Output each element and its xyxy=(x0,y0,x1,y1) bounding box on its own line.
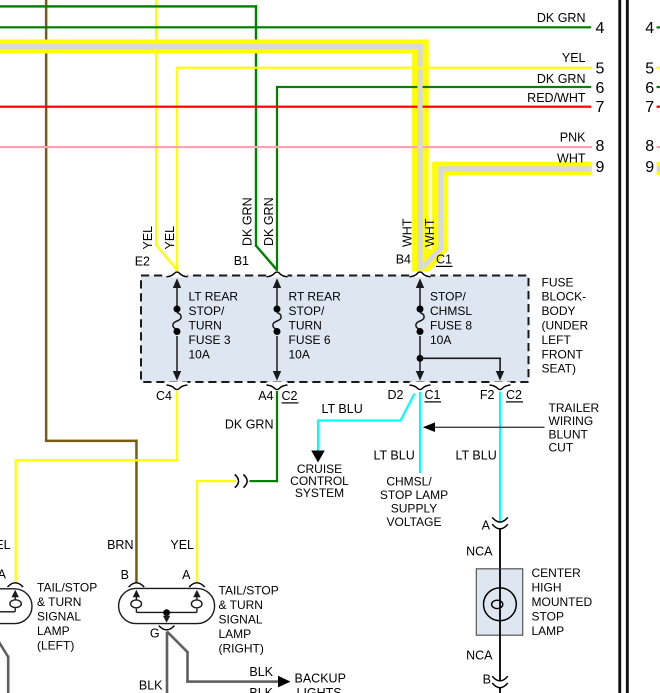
svg-text:10A: 10A xyxy=(289,348,310,362)
svg-text:BLUNT: BLUNT xyxy=(549,427,589,441)
svg-text:SIGNAL: SIGNAL xyxy=(219,613,263,627)
svg-text:PNK: PNK xyxy=(560,131,586,145)
trailer wiring blunt cut leader line xyxy=(430,427,545,428)
lamp left internal bus xyxy=(0,611,15,613)
wire BLK left lamp ground diagonal xyxy=(0,642,8,657)
svg-text:STOP: STOP xyxy=(532,610,564,624)
svg-text:RT REAR: RT REAR xyxy=(289,290,342,304)
svg-text:CUT: CUT xyxy=(549,441,574,455)
wire DK GRN row 4 xyxy=(0,26,591,28)
page boundary double line xyxy=(618,0,621,693)
wire WHT highlight band row 9 vertical xyxy=(432,162,448,251)
arrow to backup lights xyxy=(278,676,291,688)
wire DK GRN vertical x=256 (broken at WHT crossing) xyxy=(255,5,257,39)
inline connector A lower half xyxy=(492,524,508,529)
svg-text:C1: C1 xyxy=(436,253,452,267)
off-page wire stub 8 xyxy=(657,146,660,148)
svg-text:6: 6 xyxy=(596,80,605,97)
svg-text:LEFT: LEFT xyxy=(542,333,572,347)
svg-text:& TURN: & TURN xyxy=(37,595,81,609)
svg-text:A4: A4 xyxy=(258,389,273,403)
lamp right junction dot xyxy=(163,609,170,616)
svg-text:LAMP: LAMP xyxy=(37,624,70,638)
svg-text:VOLTAGE: VOLTAGE xyxy=(387,515,442,529)
svg-text:8: 8 xyxy=(645,138,654,155)
wire BLK left lamp ground vertical xyxy=(7,656,10,693)
svg-text:LT REAR: LT REAR xyxy=(189,290,239,304)
wire BLK from right lamp G to bottom edge xyxy=(166,632,169,693)
lamp right internal arrow at A xyxy=(193,590,200,597)
svg-text:B: B xyxy=(121,568,129,582)
svg-text:CHMSL/: CHMSL/ xyxy=(386,475,432,489)
svg-text:YEL: YEL xyxy=(562,51,586,65)
fuse block pin notch F2 xyxy=(490,382,511,386)
svg-text:BACKUP: BACKUP xyxy=(295,672,346,686)
svg-text:4: 4 xyxy=(645,20,654,37)
fuse block pin notch B1 xyxy=(267,273,288,278)
lamp right bulb filament B xyxy=(131,600,142,608)
wire BLK CHMSL below box xyxy=(499,635,501,681)
svg-text:STOP/: STOP/ xyxy=(189,304,225,318)
svg-text:BLK: BLK xyxy=(249,686,273,693)
svg-text:LIGHTS: LIGHTS xyxy=(297,686,342,693)
lamp right internal arrow at G xyxy=(163,616,170,623)
fuse block pin notch E2 xyxy=(167,273,188,278)
svg-text:YEL: YEL xyxy=(0,538,11,552)
svg-text:(UNDER: (UNDER xyxy=(542,319,589,333)
wire branch to pin F2 inside fuse block xyxy=(420,358,501,360)
inline connector B lower half xyxy=(492,683,508,688)
svg-text:CENTER: CENTER xyxy=(532,566,582,580)
svg-text:DK GRN: DK GRN xyxy=(241,197,255,246)
wire BRN vertical to lamp pin B xyxy=(135,440,138,583)
off-page wire stub 4 xyxy=(657,26,660,28)
wire YEL diagonal into pin E2 xyxy=(156,245,177,270)
svg-text:STOP LAMP: STOP LAMP xyxy=(380,488,448,502)
lamp right internal bus xyxy=(135,609,137,613)
svg-text:TURN: TURN xyxy=(189,319,222,333)
center high mounted stop lamp box xyxy=(476,569,522,635)
lamp right pin B cap xyxy=(129,583,145,587)
svg-text:6: 6 xyxy=(645,80,654,97)
tail/stop & turn signal lamp (right) body xyxy=(119,588,215,623)
wire YEL vertical x=177 to pin E2 xyxy=(176,67,178,272)
svg-text:LT BLU: LT BLU xyxy=(456,448,497,462)
arrow to trailer wiring xyxy=(423,422,435,432)
svg-text:TAIL/STOP: TAIL/STOP xyxy=(37,580,97,594)
svg-text:WHT: WHT xyxy=(423,218,437,247)
svg-text:HIGH: HIGH xyxy=(532,581,562,595)
wire BLK vertical to backup lights xyxy=(186,651,189,682)
wire LT BLU from pin F2 down xyxy=(499,392,501,523)
svg-text:C1: C1 xyxy=(425,388,441,402)
wire BRN vertical from top (broken at WHT crossing) xyxy=(45,0,48,40)
wire BLK horizontal to backup lights xyxy=(186,680,278,683)
svg-text:NCA: NCA xyxy=(466,545,493,559)
svg-text:FUSE 6: FUSE 6 xyxy=(289,333,331,347)
CHMSL bulb filament loop xyxy=(492,600,503,608)
svg-text:C4: C4 xyxy=(156,389,172,403)
off-page wire stub 7 xyxy=(657,106,660,108)
wire BLK below connector B xyxy=(499,688,501,693)
svg-text:STOP/: STOP/ xyxy=(430,290,466,304)
svg-text:BLK: BLK xyxy=(249,665,273,679)
svg-text:4: 4 xyxy=(596,20,605,37)
svg-text:TRAILER: TRAILER xyxy=(549,401,600,415)
svg-text:YEL: YEL xyxy=(141,226,155,250)
svg-text:DK GRN: DK GRN xyxy=(262,197,276,246)
fuse block pin notch A4 xyxy=(267,382,288,386)
wire YEL from inline connector to right lamp pin A xyxy=(197,480,235,482)
svg-text:SEAT): SEAT) xyxy=(542,362,576,376)
wire RED/WHT row 7 xyxy=(0,106,591,108)
svg-text:BRN: BRN xyxy=(107,538,133,552)
fuse block pin notch B4 xyxy=(410,273,431,278)
lamp right pin A cap xyxy=(189,583,205,587)
svg-text:7: 7 xyxy=(596,99,605,116)
lamp right pin G cap xyxy=(159,626,175,630)
wire DK GRN horizontal to inline connector xyxy=(250,480,279,482)
lamp right bulb filament A xyxy=(191,600,202,608)
fuse block pin notch C4 xyxy=(167,382,188,386)
svg-text:BODY: BODY xyxy=(542,304,576,318)
svg-text:YEL: YEL xyxy=(170,538,194,552)
wire WHT core vertical to pin B4 xyxy=(417,44,422,271)
svg-text:G: G xyxy=(150,627,160,641)
svg-text:DK GRN: DK GRN xyxy=(537,11,586,25)
wire YEL vertical to left lamp pin A xyxy=(15,459,17,581)
svg-text:TURN: TURN xyxy=(289,319,322,333)
tail/stop & turn signal lamp (left) body, clipped at page edge xyxy=(0,589,32,624)
wire YEL row 5 xyxy=(176,67,591,69)
svg-text:(RIGHT): (RIGHT) xyxy=(219,642,264,656)
svg-text:STOP/: STOP/ xyxy=(289,304,325,318)
svg-text:FUSE 8: FUSE 8 xyxy=(430,319,472,333)
svg-text:LAMP: LAMP xyxy=(219,627,252,641)
svg-text:WIRING: WIRING xyxy=(549,414,594,428)
svg-text:B1: B1 xyxy=(234,254,249,268)
wire DK GRN vertical x=277 to pin B1 xyxy=(276,86,278,271)
svg-text:F2: F2 xyxy=(480,388,495,402)
svg-text:A: A xyxy=(182,568,191,582)
wire YEL vertical x=156 from top xyxy=(155,0,157,246)
wire BLK CHMSL feed above box xyxy=(499,529,501,569)
off-page wire stub 9 xyxy=(657,162,660,175)
svg-text:C2: C2 xyxy=(506,388,522,402)
svg-text:8: 8 xyxy=(596,138,605,155)
wire WHT core top horizontal xyxy=(0,44,423,49)
wire through CHMSL box xyxy=(499,569,501,635)
wire DK GRN top horizontal xyxy=(0,5,257,7)
svg-text:DK GRN: DK GRN xyxy=(225,418,274,432)
off-page wire stub 5 xyxy=(657,67,660,69)
inline connector B upper half xyxy=(492,676,508,681)
lamp right internal arrow at B xyxy=(133,590,140,597)
svg-text:B4: B4 xyxy=(396,253,411,267)
svg-text:10A: 10A xyxy=(430,333,451,347)
inline connector splice symbols xyxy=(235,475,239,488)
svg-text:FRONT: FRONT xyxy=(542,347,584,361)
wire YEL from pin C4 down xyxy=(176,391,178,462)
wire LT BLU diagonal branch xyxy=(401,394,415,421)
svg-text:A: A xyxy=(0,568,7,582)
svg-text:SUPPLY: SUPPLY xyxy=(391,502,437,516)
fuse block body (UNDER LEFT FRONT SEAT) xyxy=(141,276,529,383)
junction dot fuse 8 output xyxy=(417,355,424,362)
fuse 3 (LT REAR STOP/TURN) element xyxy=(173,284,181,373)
svg-text:9: 9 xyxy=(645,159,654,176)
svg-text:7: 7 xyxy=(645,99,654,116)
arrow to cruise control system xyxy=(311,451,325,463)
svg-text:WHT: WHT xyxy=(557,151,586,165)
wire LT BLU from pin D2 down xyxy=(419,392,421,473)
svg-text:LT BLU: LT BLU xyxy=(322,402,363,416)
svg-text:E2: E2 xyxy=(135,255,150,269)
wire WHT core row 9 vertical xyxy=(438,166,443,250)
wire BLK diagonal from G xyxy=(167,632,187,653)
wire LT BLU vertical to cruise control arrow xyxy=(317,419,319,451)
lamp left pin A cap xyxy=(8,583,24,587)
fuse 8 (STOP/CHMSL) element xyxy=(416,284,424,373)
svg-text:5: 5 xyxy=(645,61,654,78)
wire PNK row 8 xyxy=(0,146,592,148)
wire WHT highlight band diagonal into pin B4 xyxy=(412,249,448,272)
lamp left internal arrow at A xyxy=(12,590,19,597)
fuse block pin notch D2 xyxy=(410,382,431,386)
svg-text:RED/WHT: RED/WHT xyxy=(527,91,586,105)
svg-text:A: A xyxy=(482,519,491,533)
wire WHT core row 9 horizontal xyxy=(438,166,591,171)
svg-text:CHMSL: CHMSL xyxy=(430,304,472,318)
svg-text:YEL: YEL xyxy=(163,226,177,250)
svg-text:& TURN: & TURN xyxy=(219,598,263,612)
wire WHT highlight band vertical to pin B4 xyxy=(412,40,429,269)
svg-text:DK GRN: DK GRN xyxy=(537,72,586,86)
inline connector A upper half xyxy=(492,517,508,522)
svg-text:NCA: NCA xyxy=(466,649,493,663)
svg-text:BLOCK-: BLOCK- xyxy=(542,290,587,304)
wire WHT highlight band row 9 horizontal xyxy=(432,162,592,175)
svg-text:MOUNTED: MOUNTED xyxy=(532,595,593,609)
off-page wire stub 6 xyxy=(657,86,660,88)
wire WHT highlight band top horizontal xyxy=(0,40,429,54)
svg-text:SYSTEM: SYSTEM xyxy=(295,486,344,500)
wire DK GRN diagonal into pin B1 xyxy=(256,246,277,270)
svg-text:B: B xyxy=(483,673,491,687)
wire DK GRN from pin A4 down xyxy=(276,391,278,482)
svg-text:LT BLU: LT BLU xyxy=(374,448,415,462)
svg-text:LAMP: LAMP xyxy=(532,624,565,638)
svg-text:FUSE 3: FUSE 3 xyxy=(189,333,231,347)
wire BRN horizontal xyxy=(45,440,138,443)
svg-text:SIGNAL: SIGNAL xyxy=(37,609,81,623)
svg-text:WHT: WHT xyxy=(401,218,415,247)
svg-text:9: 9 xyxy=(596,159,605,176)
wire DK GRN row 6 xyxy=(277,86,591,88)
CHMSL bulb circle xyxy=(484,588,517,621)
wire YEL horizontal to left lamp xyxy=(15,459,179,461)
fuse 6 (RT REAR STOP/TURN) element xyxy=(273,284,281,373)
wire LT BLU horizontal to cruise control xyxy=(318,419,401,421)
svg-text:BLK: BLK xyxy=(139,679,163,693)
lamp left bulb filament xyxy=(10,600,21,608)
svg-text:FUSE: FUSE xyxy=(542,275,574,289)
svg-text:5: 5 xyxy=(596,61,605,78)
svg-text:D2: D2 xyxy=(388,388,404,402)
svg-text:(LEFT): (LEFT) xyxy=(37,638,74,652)
svg-text:C2: C2 xyxy=(282,389,298,403)
svg-text:10A: 10A xyxy=(189,348,210,362)
svg-text:TAIL/STOP: TAIL/STOP xyxy=(219,584,279,598)
wire WHT core diagonal into pin B4 xyxy=(423,249,441,268)
